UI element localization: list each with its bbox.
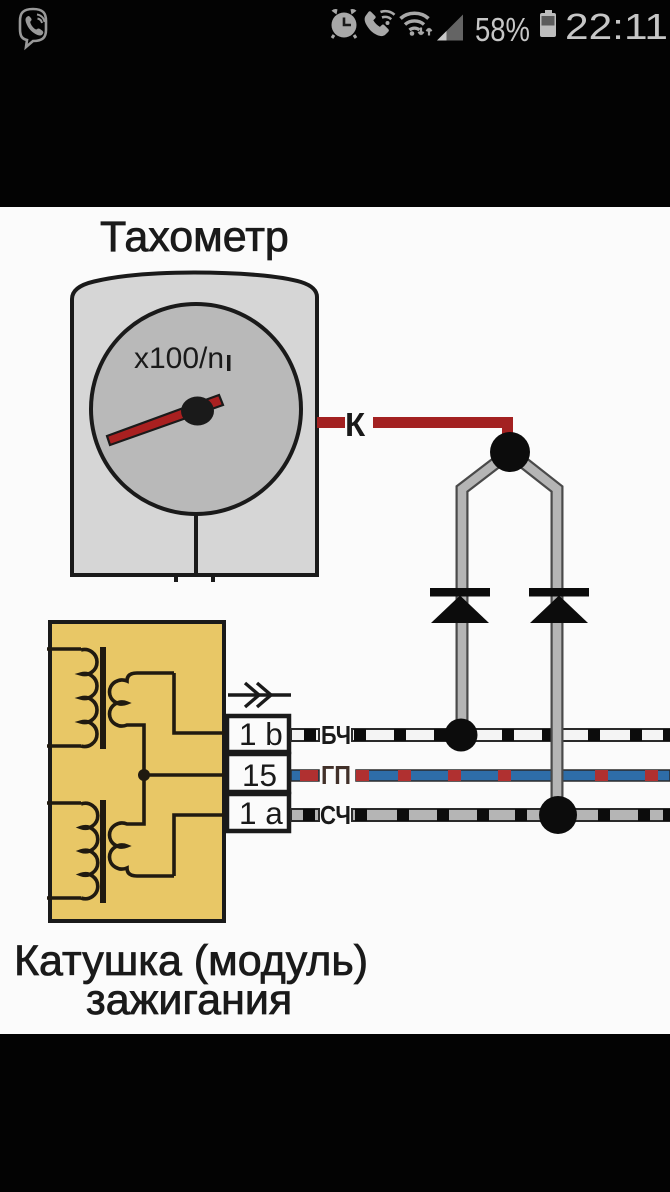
svg-text:зажигания: зажигания — [86, 976, 292, 1024]
svg-text:СЧ: СЧ — [320, 800, 351, 830]
mount tick left — [174, 576, 178, 582]
status bar: alarm clock — [332, 9, 357, 38]
ignition coil body — [50, 622, 224, 921]
svg-text:58%: 58% — [475, 11, 530, 48]
center junction dot — [138, 769, 150, 781]
mount tick right — [211, 576, 215, 582]
gauge stem wire — [194, 514, 198, 574]
pin box 1b — [227, 716, 289, 752]
wire BCH stub from pin 1b — [291, 729, 319, 741]
node at top of diode branches — [490, 432, 530, 472]
bottom black bar — [0, 1034, 670, 1192]
wire K red corner down — [502, 417, 513, 447]
right gray wire drawn over BCH and GP wires — [551, 700, 564, 802]
svg-text:22:11: 22:11 — [565, 6, 668, 47]
status bar: battery — [540, 10, 556, 37]
node on BCH wire — [445, 719, 478, 752]
diode VD1 cathode bar — [430, 588, 490, 597]
status bar: viber icon — [20, 9, 46, 47]
diode VD1 triangle — [431, 596, 489, 624]
primary winding 2 top lead — [47, 801, 81, 805]
connector arrow symbol — [228, 683, 291, 707]
tachometer housing — [72, 273, 317, 576]
pin box 15 — [227, 754, 289, 792]
needle — [107, 395, 223, 445]
wire gray left branch from node to BCH — [462, 456, 505, 724]
center junction to pin 15 — [144, 773, 226, 777]
svg-text:К: К — [345, 406, 366, 443]
status bar: wifi-calling phone — [365, 11, 395, 36]
svg-text:x100/n: x100/n — [134, 342, 224, 375]
wire gray right branch from node to SCH — [515, 456, 557, 802]
node on SCH wire — [539, 796, 577, 834]
svg-text:БЧ: БЧ — [321, 720, 351, 750]
secondary 1 top output to pin 1b — [174, 673, 226, 733]
svg-text:Тахометр: Тахометр — [100, 213, 289, 261]
coil internals — [47, 647, 226, 903]
primary winding 2 — [81, 803, 98, 899]
wire GP stub from pin 15 — [291, 770, 319, 781]
primary winding 1 top lead — [47, 647, 81, 651]
needle hub — [181, 397, 214, 426]
white schematic canvas — [0, 207, 670, 1034]
primary winding 2 bottom lead — [47, 896, 81, 900]
wire BCH white with black dashes — [352, 729, 670, 741]
svg-text:ГП: ГП — [321, 760, 351, 790]
pin box 1a — [227, 794, 289, 831]
secondary 2 bottom output to pin 1a — [174, 815, 226, 876]
secondary winding 2 with leads — [110, 775, 174, 876]
diode VD2 triangle — [530, 596, 588, 624]
status bar: wifi with up/down arrows — [401, 13, 432, 36]
core 1 — [100, 647, 106, 749]
diode VD2 cathode bar — [529, 588, 589, 597]
secondary winding 1 with leads — [110, 673, 174, 775]
svg-text:15: 15 — [242, 757, 277, 793]
tachometer dial face — [91, 304, 301, 514]
status bar: signal strength triangle — [437, 15, 463, 41]
wire K red segment right — [373, 417, 513, 428]
wire GP blue with red dashes — [356, 770, 670, 781]
svg-text:1 b: 1 b — [239, 716, 283, 752]
wire K red segment left — [317, 417, 345, 428]
primary winding 1 — [81, 650, 97, 747]
wire SCH gray with black dashes — [352, 809, 670, 821]
svg-text:1 a: 1 a — [239, 795, 283, 831]
primary winding 1 bottom lead — [47, 744, 81, 748]
core 2 — [100, 800, 106, 903]
wire SCH stub from pin 1a — [291, 809, 319, 821]
